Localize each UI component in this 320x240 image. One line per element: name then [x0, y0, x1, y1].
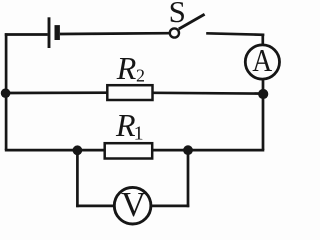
wire: switch to top-right corner	[206, 33, 264, 35]
switch S pivot circle	[170, 28, 179, 37]
ammeter U1 circle	[245, 45, 279, 79]
resistor R1 box	[105, 143, 153, 158]
node: junction dot lower-right	[183, 145, 193, 155]
switch lever	[179, 14, 205, 29]
wire: voltmeter branch right vertical	[187, 150, 190, 207]
wire: lower branch right of R1	[152, 149, 264, 152]
wire: middle branch right of R2	[153, 91, 265, 94]
wire: right rail top segment into ammeter	[261, 34, 264, 46]
battery long plate	[48, 17, 51, 48]
svg-text:2: 2	[136, 66, 145, 86]
svg-text:1: 1	[134, 122, 144, 144]
svg-text:S: S	[169, 0, 186, 29]
node: junction dot right middle	[258, 89, 268, 99]
wire: right rail below ammeter	[262, 80, 265, 151]
wire: lower branch left of R1	[5, 149, 105, 152]
wire: middle branch left of R2	[6, 91, 108, 94]
svg-text:V: V	[121, 186, 146, 224]
wire: top from left corner to battery	[5, 33, 48, 36]
svg-text:A: A	[252, 42, 272, 78]
resistor R2 box	[107, 85, 152, 100]
svg-text:R: R	[116, 50, 137, 86]
voltmeter U2 circle	[114, 187, 151, 224]
battery short thick plate	[55, 25, 60, 40]
node: junction dot lower-left	[73, 145, 83, 155]
node: junction dot left middle	[1, 88, 11, 98]
wire: voltmeter branch bottom-right horizontal	[151, 205, 190, 208]
wire: battery to switch	[60, 32, 169, 35]
wire: voltmeter branch left vertical	[76, 150, 79, 207]
wire: left vertical rail	[5, 33, 8, 150]
wire: voltmeter branch bottom-left horizontal	[76, 205, 114, 208]
